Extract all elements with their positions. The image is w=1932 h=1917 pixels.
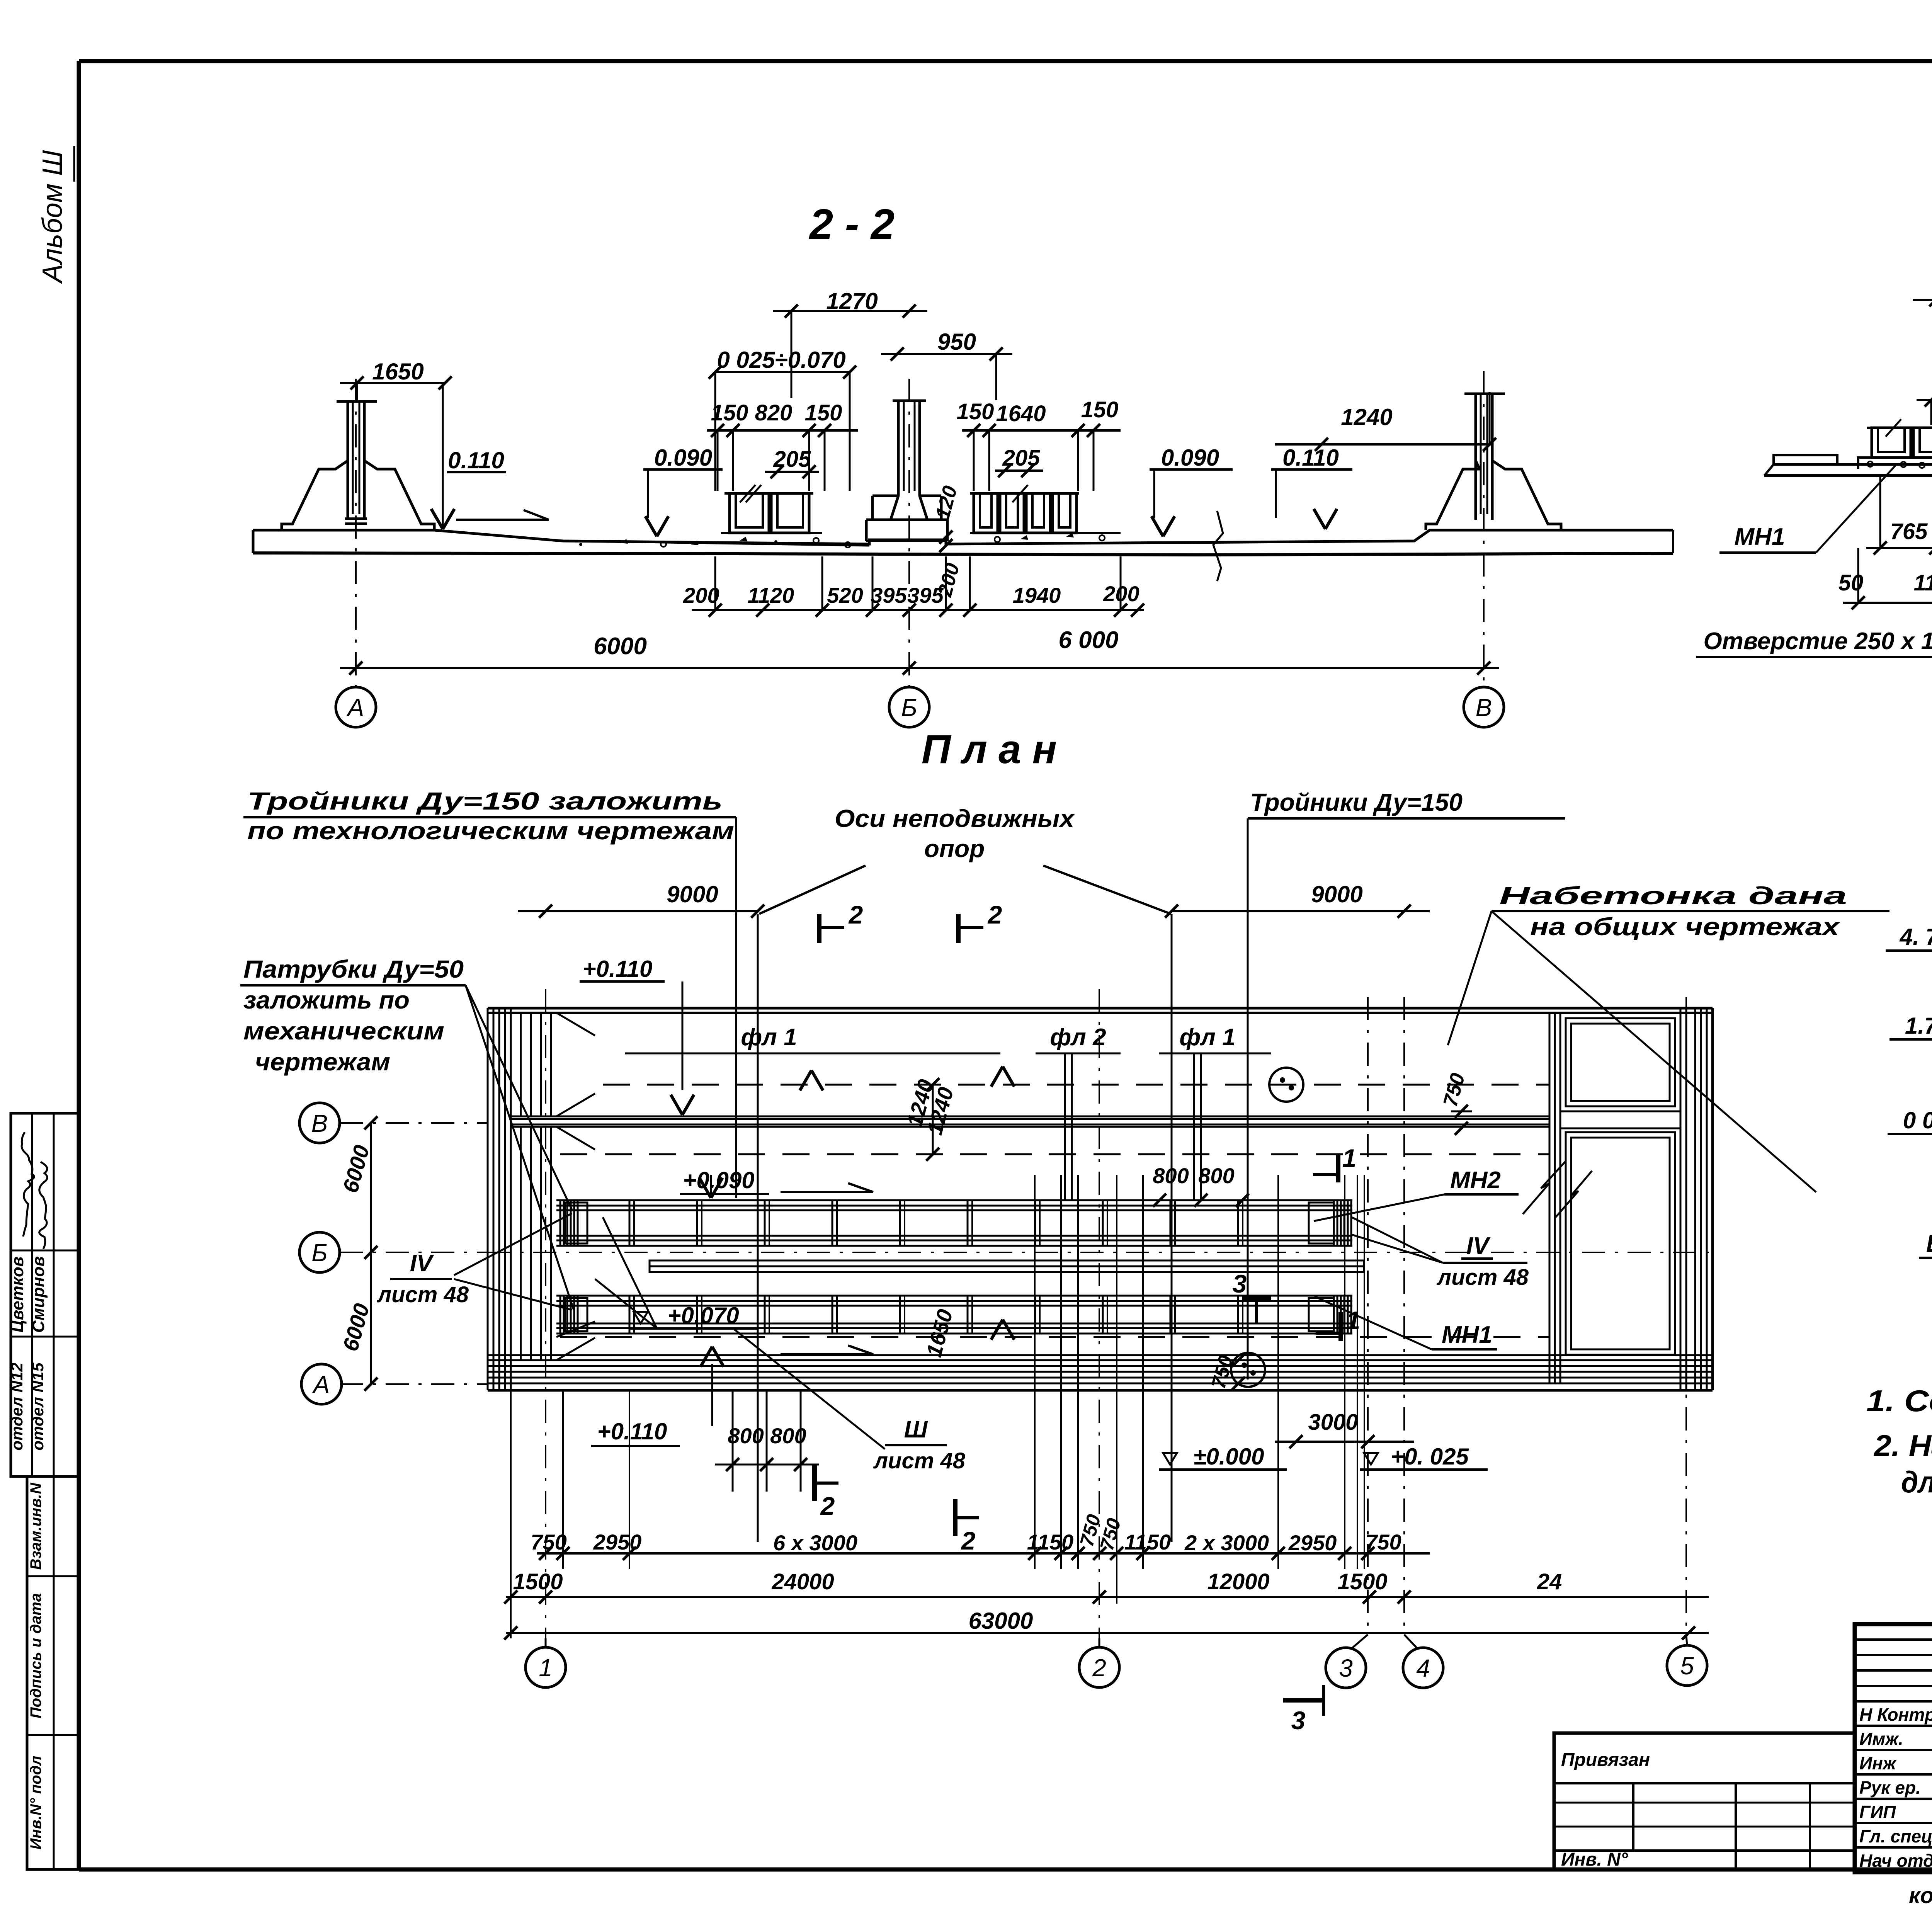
svg-text:МН2: МН2 [1450, 1167, 1501, 1194]
section mark 1 right bottom [1338, 1312, 1343, 1341]
svg-text:395: 395 [871, 583, 907, 607]
svg-text:А: А [346, 694, 364, 721]
svg-text:Бетон класса В12,5: Бетон класса В12,5 [1926, 1230, 1932, 1257]
svg-text:МН1: МН1 [1442, 1322, 1492, 1348]
axis circle B [889, 687, 929, 727]
svg-text:1.700: 1.700 [1905, 1013, 1932, 1039]
channel blocks right group 2-2 [974, 493, 998, 533]
svg-text:Привязан: Привязан [1561, 1750, 1650, 1770]
title block sig rows [1855, 1725, 1932, 1727]
svg-text:2 х 3000: 2 х 3000 [1184, 1531, 1269, 1555]
svg-text:Альбом Ш: Альбом Ш [37, 150, 68, 284]
svg-text:фл 1: фл 1 [741, 1024, 797, 1051]
svg-text:чертежам: чертежам [255, 1048, 390, 1076]
svg-text:на общих чертежах: на общих чертежах [1530, 913, 1840, 941]
svg-text:1650: 1650 [372, 359, 423, 384]
plan right cells [1566, 1018, 1675, 1106]
svg-text:150: 150 [1081, 397, 1119, 422]
svg-text:В: В [1476, 694, 1492, 721]
section mark 2 bottom b [953, 1499, 957, 1536]
svg-text:1. Совместно с данным см.: 1. Совместно с данным см. л. л. КЖ - 45 … [1866, 1384, 1932, 1418]
svg-text:200: 200 [683, 583, 719, 607]
plan fl witness lines [1064, 1053, 1066, 1200]
svg-text:24000: 24000 [771, 1569, 834, 1594]
plan break zigzag a [1523, 1161, 1566, 1214]
svg-text:Отверстие 250 х 120 (h): Отверстие 250 х 120 (h) [1703, 628, 1932, 655]
svg-text:А: А [312, 1371, 330, 1398]
svg-text:150: 150 [957, 399, 994, 424]
section 2-2 nabetonka band left [563, 541, 869, 546]
axis circle 3 [1352, 1635, 1368, 1648]
svg-text:по технологическим чертежам: по технологическим чертежам [247, 817, 734, 845]
section 2-2 pedestal V [1426, 461, 1480, 530]
plan inner wall right [1549, 1013, 1551, 1383]
svg-text:800: 800 [1153, 1163, 1189, 1188]
svg-text:6 х 3000: 6 х 3000 [773, 1531, 857, 1555]
svg-text:+0.070: +0.070 [667, 1303, 739, 1328]
svg-text:лист 48: лист 48 [873, 1448, 966, 1473]
svg-text:950: 950 [937, 329, 976, 355]
section mark 2 bottom a [812, 1465, 817, 1501]
axis circle 4 [1404, 1635, 1417, 1648]
plan wall band V [511, 1116, 1549, 1118]
privyazan table [1554, 1733, 1855, 1869]
svg-text:6000: 6000 [594, 633, 647, 660]
svg-text:+0.090: +0.090 [683, 1167, 754, 1193]
axis line B [908, 379, 910, 686]
plan break zigzag b [1556, 1171, 1592, 1217]
svg-text:Б: Б [311, 1239, 328, 1267]
svg-text:Подпись и дата: Подпись и дата [27, 1593, 44, 1718]
svg-text:лист 48: лист 48 [1436, 1265, 1529, 1290]
svg-text:Тройники Ду=150: Тройники Ду=150 [1250, 788, 1463, 816]
section mark 2 top a [817, 914, 821, 943]
svg-text:12000: 12000 [1207, 1569, 1269, 1594]
svg-text:отдел N15: отдел N15 [29, 1362, 47, 1451]
svg-text:765: 765 [1890, 519, 1928, 544]
label nabla 0.025 [1364, 1453, 1378, 1465]
svg-text:4. 700: 4. 700 [1900, 924, 1932, 950]
svg-text:Имж.: Имж. [1859, 1729, 1903, 1749]
svg-text:3000: 3000 [1308, 1410, 1358, 1435]
plan outer walls [488, 1007, 1713, 1010]
svg-text:лист 48: лист 48 [376, 1282, 469, 1307]
svg-text:0.110: 0.110 [448, 447, 504, 473]
slab 1-1 [1774, 463, 1932, 466]
svg-text:Оси неподвижных: Оси неподвижных [835, 805, 1075, 832]
svg-text:9000: 9000 [1311, 881, 1362, 907]
channel blocks left group 2-2 [730, 493, 769, 533]
nabetonka band left 1-1 [1858, 458, 1932, 469]
flow arrow left 2-2 [456, 519, 549, 521]
svg-text:5: 5 [1680, 1652, 1694, 1680]
svg-text:2 - 2: 2 - 2 [809, 201, 895, 248]
svg-text:205: 205 [773, 447, 811, 472]
svg-text:Н Контр: Н Контр [1859, 1704, 1932, 1725]
svg-text:2: 2 [961, 1526, 976, 1555]
side table lower [27, 1476, 79, 1869]
svg-text:+0.110: +0.110 [583, 956, 653, 982]
svg-text:Гл. спец.: Гл. спец. [1859, 1826, 1932, 1846]
svg-text:0.090: 0.090 [654, 445, 712, 471]
svg-text:IV: IV [1466, 1233, 1491, 1259]
axis circle 2 [1099, 1638, 1100, 1647]
svg-text:опор: опор [924, 835, 985, 862]
svg-text:Инв. N°: Инв. N° [1561, 1849, 1628, 1870]
axis circle 5 [1686, 1635, 1687, 1646]
svg-text:3: 3 [1233, 1269, 1247, 1298]
axis line A [355, 379, 357, 686]
plan channel strip 1 [556, 1199, 1352, 1201]
svg-text:Взам.инв.N: Взам.инв.N [27, 1482, 44, 1570]
svg-text:820: 820 [755, 400, 793, 425]
label nabla+0.070 [634, 1312, 648, 1323]
drawing frame [79, 59, 1932, 63]
section 2-2 nabetonka band mid [721, 532, 822, 534]
svg-text:2: 2 [820, 1492, 835, 1520]
svg-text:2950: 2950 [1288, 1531, 1337, 1555]
plan vertical axis lines [545, 989, 546, 1638]
section mark 3 top [1242, 1296, 1271, 1301]
section 2-2 pedestal A [282, 461, 348, 530]
svg-text:+0. 025: +0. 025 [1391, 1444, 1469, 1470]
svg-text:2: 2 [848, 900, 863, 929]
svg-text:Смирнов: Смирнов [29, 1256, 48, 1333]
svg-text:1640: 1640 [996, 401, 1046, 426]
svg-text:Патрубки Ду=50: Патрубки Ду=50 [243, 955, 464, 983]
svg-text:150: 150 [805, 400, 842, 425]
svg-text:1240: 1240 [1341, 404, 1392, 430]
svg-text:механическим: механическим [243, 1017, 444, 1045]
plan dashed corridor axes [603, 1084, 1549, 1086]
svg-text:Набетонка дана: Набетонка дана [1499, 882, 1847, 910]
svg-text:+0.110: +0.110 [597, 1419, 667, 1444]
side table upper [11, 1113, 79, 1476]
svg-text:Рук ер.: Рук ер. [1859, 1778, 1921, 1798]
svg-text:Ш: Ш [904, 1416, 928, 1443]
svg-text:1500: 1500 [513, 1569, 563, 1594]
svg-text:П л а н: П л а н [922, 727, 1057, 772]
svg-text:0 000: 0 000 [1903, 1107, 1932, 1133]
svg-text:IV: IV [410, 1250, 434, 1277]
svg-text:фл 1: фл 1 [1179, 1024, 1235, 1051]
svg-text:2: 2 [987, 900, 1002, 929]
svg-text:коп Доценко: коп Доценко [1909, 1883, 1932, 1908]
svg-text:для среднего пролета анал: для среднего пролета аналогична данной. [1901, 1465, 1932, 1499]
svg-text:1150: 1150 [1027, 1530, 1073, 1554]
svg-text:520: 520 [827, 583, 863, 607]
plan corridor chamfers [556, 1013, 595, 1036]
svg-text:Б: Б [901, 694, 917, 721]
plan osi nepodvizhnykh opor lines [757, 914, 759, 1542]
svg-text:3: 3 [1291, 1706, 1306, 1735]
plan support circle bottom [1231, 1353, 1265, 1387]
title block outer [1855, 1624, 1932, 1872]
axis circle A [336, 687, 376, 727]
svg-text:150: 150 [711, 400, 748, 425]
svg-text:1120: 1120 [748, 583, 794, 607]
label nabla 0.000 [1163, 1453, 1177, 1465]
svg-text:±0.000: ±0.000 [1193, 1444, 1264, 1470]
plan flow arrows [781, 1191, 873, 1193]
nabetonka band right 2-2 [970, 532, 1121, 534]
svg-text:фл 2: фл 2 [1050, 1024, 1106, 1051]
svg-text:50: 50 [1838, 570, 1864, 595]
svg-text:В: В [311, 1109, 328, 1137]
svg-text:2: 2 [1092, 1654, 1106, 1682]
svg-text:Инв.N° подл: Инв.N° подл [27, 1756, 44, 1850]
svg-text:6 000: 6 000 [1058, 627, 1118, 653]
svg-text:МН1: МН1 [1735, 524, 1785, 550]
svg-text:0.110: 0.110 [1282, 445, 1339, 471]
svg-text:9000: 9000 [667, 881, 718, 907]
plan middle thin bar [650, 1260, 1364, 1272]
svg-text:1500: 1500 [1337, 1569, 1387, 1594]
plan support circle top [1269, 1068, 1303, 1102]
svg-text:заложить по: заложить по [243, 986, 410, 1014]
section mark 3 bottom [1283, 1698, 1323, 1703]
column A [347, 401, 349, 520]
break mark 2-2 [1213, 511, 1223, 581]
plan channel strip 2 [556, 1295, 1352, 1297]
svg-text:1: 1 [1342, 1144, 1357, 1172]
svg-text:1: 1 [539, 1654, 553, 1682]
svg-text:63000: 63000 [969, 1608, 1033, 1634]
svg-text:Тройники Ду=150 заложить: Тройники Ду=150 заложить [247, 787, 723, 815]
svg-text:800: 800 [1198, 1163, 1234, 1188]
svg-text:2. Набетонка и раскладка ф: 2. Набетонка и раскладка фильтросных кан… [1873, 1429, 1932, 1463]
title block small rows [1855, 1638, 1932, 1641]
dim 0.110 left [442, 383, 444, 527]
svg-text:4: 4 [1416, 1654, 1430, 1682]
channel blocks 1-1 left [1872, 428, 1911, 458]
left pad 1-1 [1774, 455, 1837, 464]
svg-text:ГИП: ГИП [1859, 1802, 1896, 1822]
svg-text:0.090: 0.090 [1161, 445, 1219, 471]
svg-text:Нач отд.: Нач отд. [1859, 1851, 1932, 1871]
section mark 2 top b [956, 914, 961, 943]
section mark 1 right top [1336, 1153, 1340, 1182]
svg-text:Цветков: Цветков [8, 1257, 27, 1333]
axis circles left [299, 1103, 340, 1143]
svg-text:0 025÷0.070: 0 025÷0.070 [717, 347, 845, 373]
svg-text:2950: 2950 [593, 1530, 642, 1554]
column V [1475, 394, 1477, 520]
section 2-2 base slab [253, 530, 1673, 544]
svg-text:3: 3 [1339, 1654, 1353, 1682]
axis circle 1 [545, 1638, 547, 1647]
svg-text:Инж: Инж [1859, 1753, 1897, 1773]
axis line V [1483, 371, 1485, 686]
svg-text:1940: 1940 [1013, 583, 1061, 607]
section 2-2 pedestal B (middle) [893, 400, 926, 402]
svg-text:24: 24 [1537, 1569, 1562, 1594]
axis circle V [1464, 687, 1504, 727]
plan witness verticals below [510, 1390, 512, 1569]
svg-text:1120: 1120 [1914, 570, 1932, 595]
